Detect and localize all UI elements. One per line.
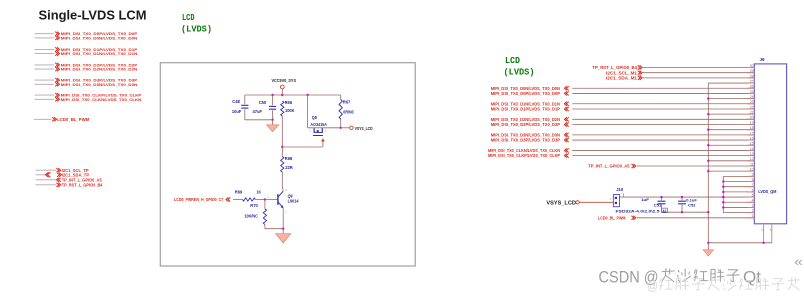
node VSYS_LCD (source) bbox=[341, 126, 373, 131]
node MIPI_DSI_TX0_D0P (right) bbox=[491, 91, 755, 96]
node MIPI_DSI_TX0_D0N bbox=[35, 35, 138, 40]
svg-text:C48: C48 bbox=[232, 99, 240, 104]
svg-text:32: 32 bbox=[769, 228, 773, 232]
wire pin4 vcc stub bbox=[722, 201, 754, 203]
node MIPI_DSI_TX0_D0N (right) bbox=[491, 86, 755, 91]
node MIPI_DSI_TX0_CLKP bbox=[35, 93, 142, 98]
svg-text:«: « bbox=[794, 255, 803, 269]
svg-text:C52: C52 bbox=[688, 202, 696, 207]
svg-text:C51: C51 bbox=[654, 202, 662, 207]
wire VSYS rail bbox=[620, 196, 724, 198]
node MIPI_DSI_TX0_CLKP (right) bbox=[488, 153, 754, 158]
node MIPI_DSI_TX0_CLKN bbox=[35, 97, 142, 102]
wire caps gnd rail bbox=[662, 211, 710, 213]
wire pin10 gnd stub bbox=[707, 170, 754, 172]
ground (decoupling caps) bbox=[266, 120, 279, 132]
connector pin stubs and pin numbers 1-30 bbox=[748, 64, 755, 218]
watermark overlay faint bbox=[647, 277, 800, 293]
junction rail/Q8 source bbox=[306, 94, 308, 96]
node MIPI_DSI_TX0_D2N (right) bbox=[491, 117, 755, 122]
svg-text:MIPI_DSI_TX0_D1N/LVDS_TX0_D1N: MIPI_DSI_TX0_D1N/LVDS_TX0_D1N bbox=[61, 51, 138, 56]
wire pin21 gnd stub bbox=[707, 113, 754, 115]
node MIPI_DSI_TX0_D1N (right) bbox=[491, 101, 755, 106]
wire pin3 vcc stub bbox=[722, 206, 754, 208]
node TP_RST_L_GPIO0_B4 (right) bbox=[592, 65, 754, 70]
resistor R69 bbox=[233, 189, 265, 201]
wire base bbox=[265, 199, 278, 201]
svg-text:MIPI_DSI_TX0_D0N/LVDS_TX0_D0N: MIPI_DSI_TX0_D0N/LVDS_TX0_D0N bbox=[61, 35, 138, 40]
watermark CSDN bbox=[599, 268, 762, 287]
svg-text:@: @ bbox=[647, 278, 658, 293]
wire J10 pin2 tick bbox=[623, 193, 625, 197]
svg-text:1K: 1K bbox=[257, 189, 262, 194]
svg-text:LCD0_PWREN_H_GPIO0_C7: LCD0_PWREN_H_GPIO0_C7 bbox=[174, 197, 224, 202]
svg-text:VSYS_LCD: VSYS_LCD bbox=[546, 200, 576, 206]
resistor R70 bbox=[244, 200, 266, 229]
junction base node bbox=[264, 198, 266, 200]
svg-text:R70: R70 bbox=[250, 203, 258, 208]
wire pin24 gnd stub bbox=[707, 97, 754, 99]
svg-text:VCC5V0_SYS: VCC5V0_SYS bbox=[272, 78, 297, 83]
capacitor C50 bbox=[253, 95, 277, 120]
svg-text:MIPI_DSI_TX0_D3P/LVDS_TX0_D3P: MIPI_DSI_TX0_D3P/LVDS_TX0_D3P bbox=[491, 138, 561, 143]
node MIPI_DSI_TX0_D2P (right) bbox=[491, 122, 755, 127]
node LCD0_PWREN_H_GPIO0_C7 bbox=[174, 197, 230, 202]
svg-text:LCD0_BL_PWM: LCD0_BL_PWM bbox=[598, 215, 626, 220]
svg-text:R66: R66 bbox=[285, 100, 293, 105]
capacitor C51 bbox=[641, 196, 666, 212]
capacitor C48 bbox=[232, 95, 249, 120]
node TP_INT_L_GPIO0_A5 (right) bbox=[588, 164, 754, 169]
resistor R67 bbox=[339, 95, 354, 128]
node MIPI_DSI_TX0_CLKN (right) bbox=[488, 148, 754, 153]
transistor Q8 AO3415A bbox=[308, 95, 341, 147]
node I2C1_SDA_M1 bbox=[606, 76, 754, 81]
node MIPI_DSI_TX0_D3N bbox=[35, 82, 138, 87]
wire pin18 gnd stub bbox=[707, 128, 754, 130]
svg-text:TP_RST_L_GPIO0_B4: TP_RST_L_GPIO0_B4 bbox=[62, 182, 103, 187]
svg-text:AO3415A: AO3415A bbox=[310, 122, 327, 127]
power flag VCC5V0_SYS bbox=[272, 78, 297, 95]
junction rail/R66 bbox=[281, 94, 283, 96]
wire 5V rail bbox=[245, 94, 341, 96]
svg-text:LCD0_BL_PWM: LCD0_BL_PWM bbox=[57, 117, 89, 122]
svg-text:MIPI_DSI_TX0_D2N/LVDS_TX0_D2N: MIPI_DSI_TX0_D2N/LVDS_TX0_D2N bbox=[61, 67, 138, 72]
svg-text:LCD: LCD bbox=[182, 12, 195, 23]
svg-text:10K/NC: 10K/NC bbox=[244, 213, 258, 218]
svg-text:10uF: 10uF bbox=[232, 109, 242, 114]
junction caps gnd bbox=[271, 119, 273, 121]
node MIPI_DSI_TX0_D3P (right) bbox=[491, 138, 755, 143]
svg-text:1uF: 1uF bbox=[641, 197, 650, 202]
wire pin27 gnd stub bbox=[708, 82, 754, 84]
wire emitter bbox=[282, 208, 284, 229]
jumper J10 bbox=[613, 187, 623, 207]
svg-text:R69: R69 bbox=[235, 189, 243, 194]
svg-text:Qt: Qt bbox=[743, 269, 761, 287]
connector shield pin 31 bbox=[761, 224, 765, 243]
node I2C1_SCL_TP (left) bbox=[36, 168, 89, 173]
transistor Q9 L9014 bbox=[267, 188, 299, 214]
svg-text:0R/NC: 0R/NC bbox=[343, 109, 354, 114]
wire pin5 vcc stub bbox=[722, 196, 754, 198]
svg-text:LVDS_QM: LVDS_QM bbox=[758, 189, 776, 194]
junction drain output bbox=[340, 127, 342, 129]
svg-text:C50: C50 bbox=[259, 100, 267, 105]
node MIPI_DSI_TX0_D3P bbox=[35, 78, 138, 83]
svg-text:FSD32A-4.0\2.0\2.5: FSD32A-4.0\2.0\2.5 bbox=[616, 208, 661, 213]
node MIPI_DSI_TX0_D2N bbox=[35, 67, 138, 72]
wire pin9 vcc stub bbox=[723, 175, 754, 177]
label LCD (LVDS) right bbox=[504, 55, 535, 77]
svg-text:31: 31 bbox=[761, 228, 765, 232]
capacitor C52 bbox=[678, 196, 697, 212]
wire VSYS_LCD to J10 bbox=[579, 197, 613, 202]
node MIPI_DSI_TX0_D1N bbox=[35, 51, 138, 56]
node MIPI_DSI_TX0_D0P bbox=[35, 31, 138, 36]
connector shield pin 32 bbox=[769, 224, 773, 243]
svg-text:R68: R68 bbox=[285, 156, 293, 161]
node MIPI_DSI_TX0_D1P bbox=[35, 47, 138, 52]
svg-text:(LVDS): (LVDS) bbox=[504, 67, 535, 78]
wire pin7 vcc stub bbox=[722, 186, 754, 188]
node LCD0_BL_PWM (right) bbox=[598, 215, 754, 220]
wire shield gnd rail bbox=[707, 242, 772, 244]
svg-text:100K: 100K bbox=[285, 108, 295, 113]
node VSYS_LCD (right big label) bbox=[546, 200, 579, 206]
junction emitter/gnd bbox=[282, 228, 284, 230]
junction rail/C50 bbox=[271, 94, 273, 96]
wire gate bbox=[282, 146, 322, 148]
ground (Q9 emitter) bbox=[275, 229, 291, 243]
svg-text:TP_INT_L_GPIO0_A5: TP_INT_L_GPIO0_A5 bbox=[588, 164, 630, 169]
label FSD32A footprint bbox=[616, 208, 668, 213]
node I2C1_SCL_M1 bbox=[606, 70, 754, 75]
svg-text:22R: 22R bbox=[285, 165, 293, 170]
node MIPI_DSI_TX0_D1P (right) bbox=[491, 107, 755, 112]
node TP_RST_L_GPIO0_B4 (left) bbox=[36, 182, 104, 187]
svg-text:MIPI_DSI_TX0_D3N/LVDS_TX0_D3N: MIPI_DSI_TX0_D3N/LVDS_TX0_D3N bbox=[61, 82, 138, 87]
svg-text:Single-LVDS LCM: Single-LVDS LCM bbox=[39, 7, 147, 22]
svg-text:L9014: L9014 bbox=[288, 199, 300, 204]
node I2C1_SDA_TP (left) bbox=[36, 172, 90, 177]
node MIPI_DSI_TX0_D2P bbox=[35, 62, 138, 67]
label LCD (LVDS) left bbox=[181, 12, 212, 34]
wire GND bus vertical bbox=[707, 83, 709, 243]
svg-text:Q8: Q8 bbox=[312, 115, 318, 120]
svg-text:MIPI_DSI_TX0_CLKP/LVDS_TX0_CLK: MIPI_DSI_TX0_CLKP/LVDS_TX0_CLKP bbox=[488, 153, 560, 158]
svg-text:VSYS_LCD: VSYS_LCD bbox=[355, 126, 373, 131]
svg-text:47uF: 47uF bbox=[253, 109, 263, 114]
connector pin stub overpaint bbox=[748, 68, 754, 218]
junction rail/bus bbox=[722, 196, 724, 198]
svg-text:MIPI_DSI_TX0_D1P/LVDS_TX0_D1P: MIPI_DSI_TX0_D1P/LVDS_TX0_D1P bbox=[491, 107, 561, 112]
svg-text:LCD: LCD bbox=[505, 55, 520, 66]
ground (connector) bbox=[703, 243, 714, 256]
svg-text:MIPI_DSI_TX0_D2P/LVDS_TX0_D2P: MIPI_DSI_TX0_D2P/LVDS_TX0_D2P bbox=[491, 122, 561, 127]
wire VCC bus vertical bbox=[722, 176, 724, 212]
wire pin8 vcc stub bbox=[722, 180, 754, 182]
svg-text:J9: J9 bbox=[760, 57, 766, 62]
junction gate node bbox=[281, 146, 283, 148]
connector J9 LVDS_QM bbox=[754, 57, 786, 224]
resistor R68 bbox=[281, 147, 293, 191]
node LCD0_BL_PWM (left) bbox=[34, 117, 90, 122]
svg-text:MIPI_DSI_TX0_D0P/LVDS_TX0_D0P: MIPI_DSI_TX0_D0P/LVDS_TX0_D0P bbox=[491, 91, 561, 96]
node MIPI_DSI_TX0_D3N (right) bbox=[491, 132, 755, 137]
wire pin6 vcc stub bbox=[722, 191, 754, 193]
node TP_INT_L_GPIO0_A5 (left) bbox=[36, 177, 103, 182]
svg-text:(LVDS): (LVDS) bbox=[181, 23, 212, 34]
wire pin2 vcc stub bbox=[723, 212, 754, 214]
wire emitter rail bbox=[265, 228, 283, 230]
wire caps bottom bbox=[245, 119, 273, 121]
svg-text:R67: R67 bbox=[343, 99, 351, 104]
svg-text:MIPI_DSI_TX0_CLKN/LVDS_TX0_CLK: MIPI_DSI_TX0_CLKN/LVDS_TX0_CLKN bbox=[61, 97, 142, 102]
resistor R66 bbox=[281, 100, 295, 147]
power switch circuit box bbox=[160, 63, 415, 266]
wire pin15 gnd stub bbox=[707, 144, 754, 146]
wire pin12 gnd stub bbox=[707, 160, 754, 162]
svg-text:I2C1_SDA_M1: I2C1_SDA_M1 bbox=[606, 76, 638, 81]
